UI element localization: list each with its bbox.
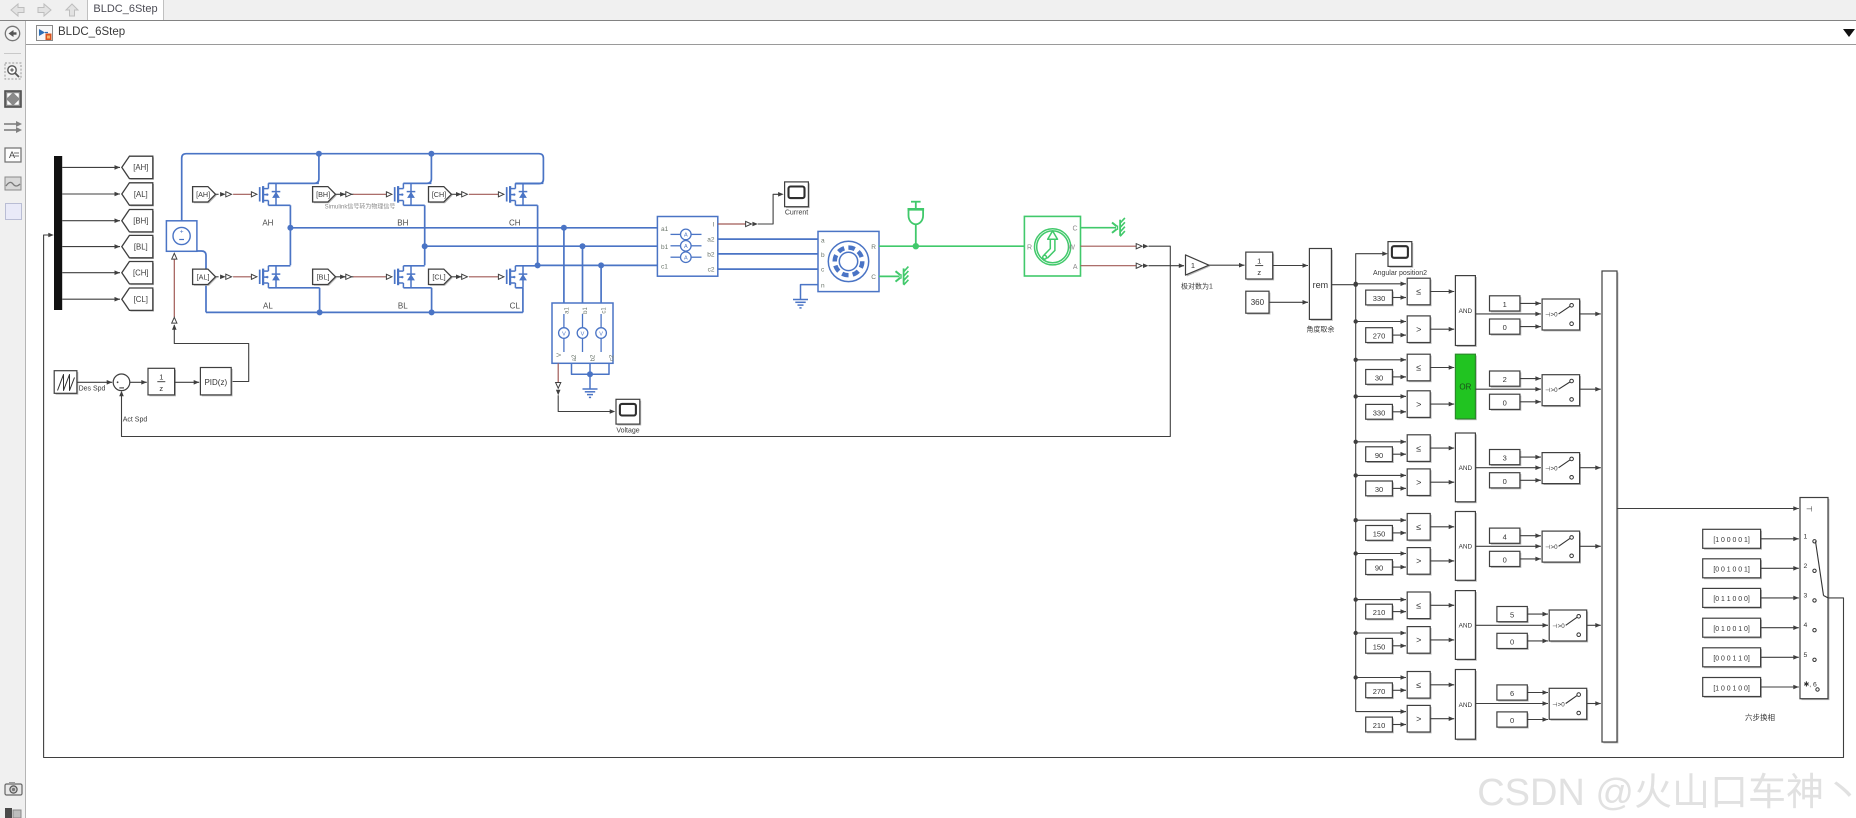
node voltage tap b	[580, 243, 586, 249]
wire logic to switch row1	[1475, 313, 1541, 315]
LE compare block row5	[1409, 593, 1432, 620]
wire vector const 5 to multiport switch	[1761, 656, 1799, 658]
wire source to sum	[77, 381, 112, 383]
wire sector const to switch row6	[1527, 692, 1548, 694]
sensor gauge icon	[1035, 229, 1071, 265]
sidebar camera icon	[4, 781, 23, 796]
demux (gate signals)	[54, 156, 62, 310]
svg-text:1: 1	[159, 373, 163, 382]
svg-text:360: 360	[1251, 298, 1265, 307]
wire GT to logic row1	[1430, 328, 1454, 330]
svg-text:[0 1 1 0 0 0]: [0 1 1 0 0 0]	[1713, 596, 1749, 603]
svg-text:b: b	[821, 252, 825, 259]
svg-text:>: >	[1416, 556, 1421, 566]
svg-text:⊣>0: ⊣>0	[1545, 387, 1558, 394]
svg-text:1: 1	[1257, 256, 1261, 265]
nav forward arrow	[36, 2, 54, 18]
wire sum to 1/z	[130, 381, 147, 383]
Goto tag [AH]	[123, 157, 154, 179]
wire logic to switch row2	[1475, 388, 1541, 390]
unit delay 1/z (angle)	[1247, 254, 1274, 281]
three-phase voltage measurement block	[552, 303, 613, 363]
wire vector const 1 to multiport switch	[1761, 538, 1799, 540]
wire const to LE row1	[1392, 297, 1406, 299]
converter + gate wire for CL	[451, 276, 465, 278]
ammeter A2	[671, 245, 681, 247]
sum bar port dot row1	[1605, 312, 1608, 315]
GT compare block row3	[1409, 470, 1432, 497]
wire zero const to switch row6	[1527, 719, 1548, 721]
converter + gate wire for BL	[336, 276, 354, 278]
wire GT to logic row3	[1430, 481, 1454, 483]
wire sensor C to mechanical reference	[1081, 227, 1117, 229]
electrical reference ground (voltage sensor)	[583, 388, 598, 390]
wire const to GT row3	[1392, 487, 1406, 489]
sidebar annotation icon	[4, 147, 22, 163]
svg-text:AND: AND	[1459, 623, 1473, 630]
svg-text:30: 30	[1375, 485, 1383, 494]
wire: AL source to bottom bus	[319, 288, 321, 313]
MOSFET CH	[498, 192, 504, 197]
constant 330 (lower bound)	[1367, 406, 1394, 421]
svg-text:c1: c1	[661, 264, 668, 271]
wire rem out / angle distribution	[1331, 284, 1355, 286]
svg-text:[CH]: [CH]	[133, 269, 149, 278]
svg-text:[AH]: [AH]	[133, 163, 148, 172]
phase junction riser B	[424, 205, 426, 265]
svg-text:a1: a1	[564, 307, 570, 314]
wire LE to logic row6	[1430, 684, 1454, 686]
node angle tap row3 upper	[1354, 440, 1358, 444]
svg-text:a1: a1	[661, 226, 669, 233]
node voltage tap c	[598, 262, 604, 268]
sum bar port dot row6	[1605, 702, 1608, 705]
svg-text:A: A	[684, 233, 688, 239]
svg-text:角度取余: 角度取余	[1306, 325, 1334, 334]
svg-text:>: >	[1416, 477, 1421, 487]
wire LE to logic row5	[1430, 604, 1454, 606]
wire logic to switch row4	[1475, 545, 1541, 547]
converter + gate wire for AH	[216, 193, 219, 195]
svg-text:[CH]: [CH]	[432, 190, 446, 199]
wire const to LE row5	[1392, 611, 1406, 613]
svg-text:BH: BH	[397, 219, 408, 228]
node angle tap row3 lower	[1354, 473, 1358, 477]
switch block row6	[1551, 690, 1589, 721]
wire angle to LE row5	[1356, 599, 1406, 601]
node bottom bus below BL	[429, 309, 435, 315]
node angle tap row5 lower	[1354, 631, 1358, 635]
svg-text:b2: b2	[591, 354, 597, 361]
tab strip background	[0, 0, 1856, 21]
wire sector const to switch row1	[1520, 302, 1541, 304]
svg-text:90: 90	[1375, 451, 1383, 460]
gate-vector constant [0 1 1 0 0 0]	[1704, 590, 1762, 609]
wire I output to Current scope	[718, 223, 746, 225]
gate-vector constant [1 0 0 0 0 1]	[1704, 531, 1762, 550]
wire switch out to sum bar row4	[1580, 545, 1601, 547]
wire angle to GT row2	[1356, 395, 1406, 397]
wire switch out to sum bar row1	[1580, 313, 1601, 315]
wire: BL source to bottom bus	[431, 288, 433, 313]
constant 210 (lower bound)	[1367, 719, 1394, 734]
constant 6 (sector id)	[1498, 686, 1528, 701]
sensor W output PS->Simulink and speed feedback wire	[1081, 245, 1137, 247]
AND logic block row4	[1457, 513, 1477, 582]
mechanical rotational reference (sensor C)	[1112, 223, 1117, 227]
svg-text:[0 1 0 0 1 0]: [0 1 0 0 1 0]	[1713, 626, 1749, 633]
svg-text:[1 0 0 1 0 0]: [1 0 0 1 0 0]	[1713, 685, 1749, 692]
node angle tap row1 lower	[1354, 319, 1358, 323]
svg-text:5: 5	[1510, 611, 1514, 620]
gate-vector constant [0 0 1 0 0 1]	[1704, 560, 1762, 579]
constant 210 (upper bound)	[1367, 606, 1394, 621]
node angle tap row4 upper	[1354, 518, 1358, 522]
constant 0 row2	[1491, 396, 1521, 411]
MOSFET BH	[386, 192, 392, 197]
svg-text:AND: AND	[1459, 543, 1473, 550]
wire angle to GT row3	[1356, 474, 1406, 476]
wire angle to LE row1	[1356, 283, 1406, 285]
svg-text:z: z	[159, 384, 163, 393]
breadcrumb text	[58, 26, 125, 38]
svg-text:Simulink信号转为物理信号: Simulink信号转为物理信号	[325, 203, 396, 211]
constant 90 (lower bound)	[1367, 561, 1394, 576]
svg-text:[1 0 0 0 0 1]: [1 0 0 0 0 1]	[1713, 537, 1749, 544]
wire const to GT row2	[1392, 411, 1406, 413]
sensor A output PS->Simulink to gain	[1081, 265, 1137, 267]
constant 5 (sector id)	[1498, 608, 1528, 623]
wire multiport switch output feedback loop to demux	[44, 235, 1844, 758]
sidebar fit-to-view icon	[4, 90, 22, 108]
From tag [CH]	[430, 188, 453, 203]
svg-text:1: 1	[1191, 261, 1195, 270]
wire motor R to motion sensor (green)	[879, 245, 1024, 247]
wire switch out to sum bar row6	[1587, 703, 1601, 705]
svg-text:BL: BL	[398, 302, 408, 311]
sidebar image icon	[4, 176, 22, 191]
node angle tap row6 upper	[1354, 675, 1358, 679]
svg-text:2: 2	[1503, 375, 1507, 384]
sidebar signal arrows icon	[3, 120, 23, 134]
wire: AH drain riser	[268, 154, 319, 184]
wire demux to Goto [BH]	[62, 220, 120, 222]
svg-text:5: 5	[1804, 652, 1808, 659]
wire GT to logic row5	[1430, 639, 1454, 641]
wire sector const to switch row2	[1520, 378, 1541, 380]
wire: BH drain riser	[403, 154, 431, 184]
wire angle to GT row1	[1356, 321, 1406, 323]
svg-text:b1: b1	[583, 307, 589, 314]
ideal rotational motion sensor block	[1024, 216, 1080, 276]
constant 0 row3	[1491, 474, 1521, 489]
svg-text:4: 4	[1503, 532, 1507, 541]
svg-text:0: 0	[1510, 716, 1514, 725]
phase line B to b1	[425, 245, 658, 247]
wire vector const 4 to multiport switch	[1761, 627, 1799, 629]
unit delay 1/z (speed)	[149, 370, 176, 397]
svg-text:CL: CL	[510, 302, 521, 311]
breadcrumb bar	[26, 21, 1856, 45]
svg-text:0: 0	[1503, 477, 1507, 486]
svg-text:A: A	[684, 244, 688, 250]
LE compare block row3	[1409, 436, 1432, 463]
wire: DC- bottom bus (blue)	[206, 311, 523, 313]
Des Spd repeating sequence source	[56, 372, 79, 395]
wires a2/b2/c2 to motor	[718, 238, 818, 240]
wire zero const to switch row4	[1520, 558, 1541, 560]
svg-text:⊣: ⊣	[1806, 505, 1813, 514]
breadcrumb model icon	[36, 25, 54, 42]
sum bar port dot row2	[1605, 388, 1608, 391]
svg-text:[BL]: [BL]	[134, 242, 148, 251]
svg-text:≤: ≤	[1416, 522, 1421, 532]
svg-text:极对数为1: 极对数为1	[1181, 282, 1213, 291]
svg-text:4: 4	[1804, 622, 1808, 629]
wire motor n to electrical reference	[801, 285, 819, 300]
AND logic block row1	[1457, 277, 1477, 347]
wire angle to GT row6	[1356, 711, 1406, 713]
node neutral join	[587, 371, 593, 377]
From tag [CL]	[430, 270, 453, 285]
wire logic to switch row5	[1475, 624, 1548, 626]
phase line C to c1	[538, 264, 658, 266]
converter + gate wire for CH	[451, 193, 465, 195]
svg-text:2: 2	[1804, 563, 1808, 570]
electrical reference ground (motor n)	[793, 299, 808, 301]
wire demux to Goto [CL]	[62, 298, 120, 300]
svg-text:AL: AL	[263, 302, 273, 311]
svg-text:a: a	[821, 237, 825, 244]
svg-text:+: +	[180, 229, 184, 236]
MOSFET BL	[386, 274, 392, 279]
svg-text:≤: ≤	[1416, 287, 1421, 297]
phase junction riser A	[289, 205, 291, 265]
svg-text:>: >	[1416, 635, 1421, 645]
wire LE to logic row1	[1430, 291, 1454, 293]
wire LE to logic row2	[1430, 367, 1454, 369]
constant 1 (sector id)	[1491, 297, 1521, 312]
From tag [BH]	[314, 188, 337, 203]
wire const to GT row6	[1392, 724, 1406, 726]
Angular position2 scope block	[1389, 243, 1413, 268]
svg-text:Current: Current	[785, 210, 808, 217]
sum-of-elements bar	[1603, 272, 1618, 743]
sum bar port dot row5	[1605, 624, 1608, 627]
wire logic to switch row6	[1475, 703, 1548, 705]
wire angle to LE row6	[1356, 677, 1406, 679]
svg-text:0: 0	[1510, 638, 1514, 647]
phase line A to a1	[290, 227, 657, 229]
svg-text:⊣>0: ⊣>0	[1545, 544, 1558, 551]
switch block row5	[1551, 611, 1589, 642]
svg-text:≤: ≤	[1416, 363, 1421, 373]
wire angle to LE row2	[1356, 359, 1406, 361]
svg-text:I: I	[713, 222, 715, 229]
wire angle to LE row3	[1356, 441, 1406, 443]
voltmeter V3	[600, 314, 602, 328]
svg-text:b2: b2	[707, 252, 715, 259]
svg-text:330: 330	[1373, 294, 1386, 303]
MOSFET AH	[251, 192, 257, 197]
sum bar port dot row4	[1605, 545, 1608, 548]
svg-text:V: V	[599, 331, 603, 337]
svg-text:330: 330	[1373, 408, 1386, 417]
ammeter A1	[671, 233, 681, 235]
svg-text:[BL]: [BL]	[317, 272, 330, 281]
node angle main	[1354, 283, 1358, 287]
wire const to GT row5	[1392, 645, 1406, 647]
svg-text:⊣>0: ⊣>0	[1552, 701, 1565, 708]
svg-text:270: 270	[1373, 332, 1386, 341]
svg-text:n: n	[821, 282, 825, 289]
GT compare block row5	[1409, 628, 1432, 655]
constant 90 (upper bound)	[1367, 448, 1394, 463]
wire sector const to switch row3	[1520, 456, 1541, 458]
constant 0 row6	[1498, 713, 1528, 728]
From tag [BL]	[314, 270, 337, 285]
wire sum bar to multiport switch control	[1617, 508, 1799, 510]
node angle tap row1 upper	[1354, 282, 1358, 286]
MOSFET AL	[251, 274, 257, 279]
sum bar port dot row3	[1605, 466, 1608, 469]
svg-text:C: C	[871, 274, 876, 281]
svg-text:Des Spd: Des Spd	[79, 386, 106, 393]
svg-text:1: 1	[1503, 300, 1507, 309]
wire GT to logic row4	[1430, 560, 1454, 562]
AND logic block row3	[1457, 434, 1477, 503]
nav up arrow	[64, 2, 80, 18]
svg-text:⊣>0: ⊣>0	[1545, 312, 1558, 319]
svg-text:rem: rem	[1313, 280, 1329, 290]
svg-text:⊣>0: ⊣>0	[1552, 623, 1565, 630]
Voltage scope block	[617, 401, 641, 426]
svg-text:0: 0	[1503, 323, 1507, 332]
svg-text:6: 6	[1510, 689, 1514, 698]
From tag [AH]	[194, 188, 217, 203]
GT compare block row4	[1409, 549, 1432, 576]
svg-text:V: V	[562, 331, 566, 337]
constant 0 row4	[1491, 553, 1521, 568]
From tag [AL]	[194, 270, 217, 285]
wire: source negative to bottom bus	[197, 251, 206, 312]
wire vector const 2 to multiport switch	[1761, 567, 1799, 569]
svg-text:AH: AH	[262, 219, 273, 228]
svg-text:R: R	[1027, 245, 1032, 252]
svg-text:b1: b1	[661, 244, 669, 251]
phase junction riser C	[537, 205, 539, 265]
node angle tap row2 upper	[1354, 358, 1358, 362]
constant 150 (upper bound)	[1367, 527, 1394, 542]
svg-text:C: C	[1072, 225, 1077, 232]
gate-vector constant [1 0 0 1 0 0]	[1704, 679, 1762, 698]
svg-text:3: 3	[1503, 454, 1507, 463]
wire logic to switch row3	[1475, 467, 1541, 469]
svg-text:210: 210	[1373, 608, 1386, 617]
OR logic block (green)	[1457, 356, 1477, 421]
svg-text:≤: ≤	[1416, 680, 1421, 690]
constant 270 (upper bound)	[1367, 684, 1394, 699]
svg-text:>: >	[1416, 714, 1421, 724]
sidebar zoom icon	[4, 62, 22, 80]
wire 1/z to rem	[1273, 265, 1308, 267]
AND logic block row6	[1457, 671, 1477, 741]
node angle tap row4 lower	[1354, 551, 1358, 555]
gate-vector constant [0 1 0 0 1 0]	[1704, 620, 1762, 639]
node angle tap row2 lower	[1354, 394, 1358, 398]
wire: DC+ top bus (blue)	[182, 154, 544, 221]
wire zero const to switch row5	[1527, 640, 1548, 642]
wire zero const to switch row3	[1520, 479, 1541, 481]
svg-text:AND: AND	[1459, 465, 1473, 472]
GT compare block row6	[1409, 707, 1432, 734]
constant 330 (upper bound)	[1367, 292, 1394, 307]
svg-text:[AL]: [AL]	[134, 190, 148, 199]
inertia block (green bell)	[911, 201, 921, 203]
wire LE to logic row4	[1430, 526, 1454, 528]
wire demux to Goto [BL]	[62, 246, 120, 248]
Goto tag [BH]	[123, 211, 154, 233]
sum junction (speed error)	[113, 374, 130, 391]
svg-text:[0 0 1 0 0 1]: [0 0 1 0 0 1]	[1713, 567, 1749, 574]
wires a2/b2/c2 join to neutral	[572, 363, 610, 374]
svg-text:CH: CH	[509, 219, 521, 228]
switch block row1	[1544, 300, 1582, 331]
wire switch out to sum bar row3	[1580, 467, 1601, 469]
svg-text:c1: c1	[602, 307, 608, 314]
constant 0 row1	[1491, 320, 1521, 335]
constant 360	[1247, 293, 1270, 315]
wire switch out to sum bar row2	[1580, 388, 1601, 390]
MOSFET CL	[498, 274, 504, 279]
nav back arrow	[8, 2, 26, 18]
ammeter A3	[671, 256, 681, 258]
node voltage tap a	[561, 225, 567, 231]
node bottom bus below AL	[317, 309, 323, 315]
wire gain to 1/z	[1209, 264, 1245, 266]
constant 270 (lower bound)	[1367, 329, 1394, 344]
wire const to LE row2	[1392, 376, 1406, 378]
svg-text:>: >	[1416, 324, 1421, 334]
svg-text:A: A	[684, 256, 688, 262]
wire demux to Goto [CH]	[62, 272, 120, 274]
wire const to LE row6	[1392, 689, 1406, 691]
constant 4 (sector id)	[1491, 530, 1521, 545]
converter + gate wire for AL	[216, 276, 219, 278]
svg-text:1: 1	[1804, 533, 1808, 540]
LE compare block row4	[1409, 515, 1432, 542]
voltmeter V1	[563, 314, 565, 328]
sidebar separator	[4, 53, 21, 54]
wire switch out to sum bar row5	[1587, 624, 1601, 626]
PS converter into source (hollow triangle) and signal arrow from PID	[172, 253, 177, 259]
svg-text:0: 0	[1503, 556, 1507, 565]
angle distribution vertical wire	[1355, 285, 1357, 712]
wire: PID output up to source converter	[174, 325, 248, 382]
wire angle to LE row4	[1356, 519, 1406, 521]
Goto tag [CH]	[123, 263, 154, 285]
node on top bus above BH	[428, 151, 434, 157]
wire const to LE row4	[1392, 532, 1406, 534]
wire const to GT row1	[1392, 334, 1406, 336]
sidebar viewmark square	[5, 203, 22, 220]
wire zero const to switch row1	[1520, 326, 1541, 328]
wire GT to logic row6	[1430, 718, 1454, 720]
svg-text:[BH]: [BH]	[316, 190, 330, 199]
motor rotor icon	[828, 241, 868, 281]
V output converter to Voltage scope	[557, 363, 559, 382]
svg-text:六步换相: 六步换相	[1745, 712, 1775, 722]
